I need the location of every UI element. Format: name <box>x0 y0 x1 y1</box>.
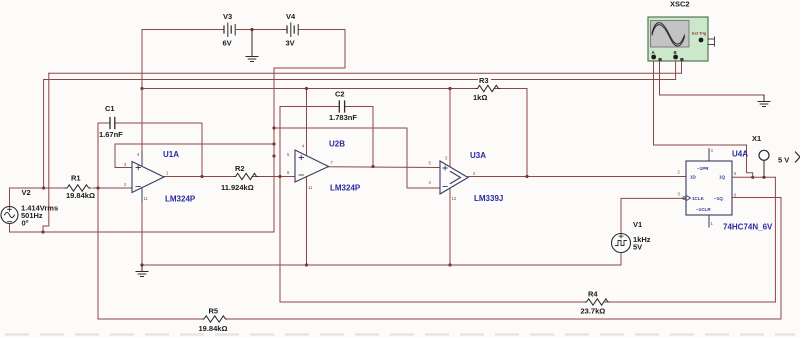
wire step horizontal to bias rail <box>274 67 345 69</box>
wire C1 drop to U1A output <box>201 123 203 177</box>
label R1 <box>66 174 95 201</box>
svg-text:74HC74N_6V: 74HC74N_6V <box>723 223 773 232</box>
svg-text:19.84kΩ: 19.84kΩ <box>199 324 228 333</box>
svg-text:R2: R2 <box>235 164 245 173</box>
wire R4 horizontal left of zigzag <box>280 301 585 303</box>
svg-text:V3: V3 <box>223 12 232 21</box>
svg-text:LM324P: LM324P <box>330 184 361 193</box>
svg-text:19.84kΩ: 19.84kΩ <box>66 191 95 200</box>
svg-text:1.783nF: 1.783nF <box>329 113 357 122</box>
svg-text:2: 2 <box>678 170 681 175</box>
wire U2B power pin top <box>306 89 308 156</box>
wire U1A plus input loop <box>115 144 274 168</box>
label probe 5V <box>778 156 789 165</box>
wire C2 top right segment <box>345 106 374 108</box>
svg-text:~1Q: ~1Q <box>714 196 723 201</box>
svg-text:V4: V4 <box>286 12 296 21</box>
wire R3 drop to U3A output <box>526 89 528 177</box>
probe X1 <box>759 150 769 177</box>
svg-text:V2: V2 <box>22 188 31 197</box>
source V1 square <box>612 234 631 253</box>
comparator U3A <box>440 161 468 194</box>
label X1 <box>752 134 761 143</box>
label scope A <box>652 50 656 55</box>
svg-text:5: 5 <box>287 152 290 157</box>
wire U3A power pin top <box>449 89 451 167</box>
wire C1 top right segment <box>115 122 202 124</box>
svg-text:5V: 5V <box>633 243 642 252</box>
wire R5 bottom right of zigzag <box>228 318 782 320</box>
wire scope A+ down <box>653 60 655 145</box>
battery V4 <box>287 23 298 37</box>
wire scope A- to ground <box>660 60 765 95</box>
wire V2 bottom horizontal <box>10 224 275 233</box>
svg-text:3: 3 <box>678 192 681 197</box>
svg-text:Ext Trig: Ext Trig <box>692 31 707 36</box>
label R2 <box>221 164 254 192</box>
svg-text:R1: R1 <box>71 174 81 183</box>
svg-text:23.7kΩ: 23.7kΩ <box>581 307 606 316</box>
wire R1 to U1A inverting input <box>93 187 132 189</box>
label V4 <box>286 12 297 48</box>
wire V4 right step down <box>344 30 346 69</box>
wire U3A output to U4A 1D <box>468 176 686 178</box>
svg-text:4: 4 <box>429 180 432 185</box>
wire scope B+ drop to V2 top node <box>43 80 45 189</box>
wire U1A ground pin <box>141 192 143 265</box>
wire scope B- drop with jog to V2 bottom <box>43 73 49 232</box>
svg-text:XSC2: XSC2 <box>670 0 690 9</box>
wire C1 top left segment <box>98 122 110 124</box>
wire U2B output to U3A plus input <box>329 166 441 169</box>
svg-text:5: 5 <box>429 161 432 166</box>
wire 1Q drop right <box>774 177 776 302</box>
svg-text:V1: V1 <box>633 220 642 229</box>
wire bias to U3A minus input <box>274 128 440 188</box>
wire C1 left leg and R5 riser x98 <box>97 123 99 319</box>
resistor R4 <box>585 299 609 305</box>
pin numbers U4A <box>678 148 738 226</box>
svg-text:1: 1 <box>166 171 169 176</box>
svg-text:1D: 1D <box>690 175 697 180</box>
wire scope A+ staircase to 1Q node <box>654 145 753 177</box>
svg-text:1: 1 <box>711 221 714 226</box>
wire U1A output to R2 <box>164 176 234 178</box>
wire R2 to U2B inverting input <box>252 176 295 178</box>
svg-text:4: 4 <box>711 148 714 153</box>
wire V2 top to R1 <box>10 187 66 189</box>
flip-flop pin names <box>690 166 726 212</box>
wire scope B pin stubs <box>676 60 682 80</box>
label XSC2 <box>670 0 690 9</box>
svg-text:2: 2 <box>473 171 476 176</box>
label R5 <box>199 307 228 334</box>
label U2B <box>329 140 361 193</box>
ground scope <box>758 95 770 107</box>
oscilloscope XSC2 <box>648 17 715 61</box>
ground center supply <box>246 30 258 62</box>
wire notQ drop right <box>780 198 782 320</box>
wire C2 drop to U2B output <box>372 107 374 167</box>
svg-text:U2B: U2B <box>329 140 345 149</box>
wire bias vertical node B <box>273 68 275 232</box>
svg-text:~1PR: ~1PR <box>697 166 709 171</box>
svg-text:~1CLR: ~1CLR <box>696 207 711 212</box>
label R4 <box>581 290 606 316</box>
wire VCC rail y88 right of R3 <box>494 88 527 90</box>
svg-text:2: 2 <box>124 182 127 187</box>
wire VCC rail y88 left of R3 <box>142 88 476 90</box>
pin numbers U1A <box>124 152 169 201</box>
label C2 <box>329 90 357 123</box>
battery V3 <box>224 23 235 37</box>
svg-text:C2: C2 <box>335 90 345 99</box>
label scope B <box>674 50 678 55</box>
probe arrow <box>796 152 800 162</box>
svg-text:0°: 0° <box>22 219 29 228</box>
svg-text:4: 4 <box>137 152 140 157</box>
wire U2B ground pin <box>306 177 308 266</box>
wire R5 bottom left of zigzag <box>98 318 203 320</box>
svg-text:LM324P: LM324P <box>165 195 196 204</box>
resistor R2 <box>234 173 258 179</box>
label ext trig <box>692 31 707 36</box>
svg-text:1CLK: 1CLK <box>692 196 705 201</box>
svg-text:R5: R5 <box>209 307 219 316</box>
svg-text:3: 3 <box>124 162 127 167</box>
svg-text:6V: 6V <box>223 39 232 48</box>
svg-text:X1: X1 <box>752 134 761 143</box>
wire V1 top to U4A clock <box>621 198 686 233</box>
label V1 <box>633 220 651 252</box>
resistor R3 <box>476 85 500 91</box>
svg-text:5 V: 5 V <box>778 156 789 165</box>
svg-text:C1: C1 <box>105 104 115 113</box>
svg-text:3: 3 <box>445 156 448 161</box>
wire R4 horizontal right of zigzag <box>605 301 775 303</box>
capacitor C2 <box>339 101 344 112</box>
op-amp U1A <box>132 152 164 202</box>
label U4A <box>723 150 773 232</box>
svg-text:1Q: 1Q <box>719 175 726 180</box>
svg-text:R4: R4 <box>588 290 598 299</box>
pin numbers U3A <box>429 156 477 202</box>
svg-text:U3A: U3A <box>470 151 486 160</box>
wire ground rail bottom <box>142 264 621 266</box>
svg-text:7: 7 <box>331 160 334 165</box>
svg-text:3V: 3V <box>286 39 295 48</box>
svg-text:12: 12 <box>452 196 457 201</box>
svg-text:6: 6 <box>734 193 737 198</box>
label U1A <box>163 150 196 204</box>
bottom artifact band <box>5 333 795 335</box>
wire supply rail V3/V4 top <box>142 29 345 31</box>
svg-text:11: 11 <box>144 196 149 201</box>
wire scope B+ channel y79 <box>44 79 676 81</box>
label R3 <box>473 76 491 102</box>
svg-text:R3: R3 <box>479 76 489 85</box>
op-amp U2B <box>295 150 329 182</box>
wire +6V vertical to U1A pin4 <box>141 30 143 163</box>
svg-text:11.924kΩ: 11.924kΩ <box>221 183 254 192</box>
ground U1A rail <box>136 265 148 277</box>
label V2 <box>21 188 58 228</box>
label C1 <box>99 104 123 139</box>
svg-text:6: 6 <box>287 170 290 175</box>
label V3 <box>223 12 233 48</box>
svg-text:5: 5 <box>734 171 737 176</box>
wire C2 left leg riser x280 to R4 <box>279 107 281 303</box>
resistor R1 <box>65 185 91 191</box>
wire C2 top left segment <box>280 106 339 108</box>
wire V1 bottom stem <box>620 253 622 266</box>
wire U4A 1Q output <box>732 176 775 178</box>
svg-text:1.67nF: 1.67nF <box>99 130 123 139</box>
pin numbers U2B <box>287 144 334 191</box>
capacitor C1 <box>110 118 115 129</box>
svg-text:11: 11 <box>308 185 313 190</box>
svg-text:U4A: U4A <box>732 150 748 159</box>
svg-text:U1A: U1A <box>163 150 179 159</box>
svg-text:1kΩ: 1kΩ <box>473 93 487 102</box>
source V2 sine <box>1 207 18 224</box>
svg-text:LM339J: LM339J <box>474 194 503 203</box>
wire U4A notQ output <box>732 197 781 199</box>
wire U3A ground pin <box>449 188 451 265</box>
resistor R5 <box>203 316 228 322</box>
flip-flop U4A box <box>683 149 732 228</box>
wire scope B- channel y73 <box>49 72 682 74</box>
svg-text:4: 4 <box>302 144 305 149</box>
label U3A <box>470 151 503 203</box>
wire V2 top stem <box>9 188 11 207</box>
